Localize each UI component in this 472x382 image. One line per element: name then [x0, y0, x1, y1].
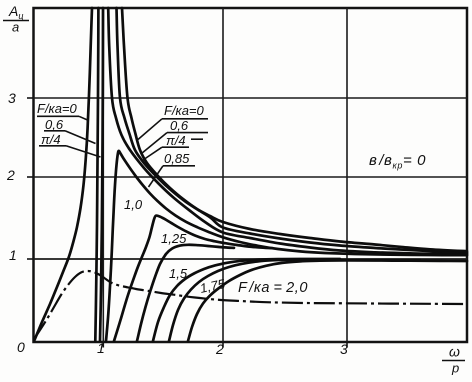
- svg-text:Aц: Aц: [8, 3, 24, 21]
- curve F/ka=0 left branch: [35, 8, 93, 340]
- right label 0,85 underline: [163, 165, 195, 167]
- svg-text:2: 2: [6, 167, 15, 183]
- gridline y=1: [34, 258, 468, 260]
- svg-text:0,6: 0,6: [170, 118, 189, 133]
- curve F/ka=0.6 left branch: [95, 8, 98, 341]
- small dash right of pi/4: [191, 138, 203, 140]
- gridline x=3: [346, 8, 348, 342]
- svg-text:F/кa=0: F/кa=0: [37, 101, 78, 116]
- right label 0,85 leader: [149, 166, 164, 187]
- svg-text:p: p: [451, 361, 459, 376]
- left label pi/4 leader: [66, 146, 101, 157]
- right label pi/4 leader: [143, 147, 162, 160]
- curve F/ka=pi/4 right branch: [108, 8, 467, 254]
- curve F/ka=0.85: [106, 151, 467, 341]
- curve F/ka=1.0: [114, 216, 273, 341]
- tick x=1: [102, 342, 104, 348]
- left label F/ka=0 leader: [79, 116, 88, 120]
- svg-text:0,6: 0,6: [45, 117, 64, 132]
- dash-dot limit line: [34, 271, 467, 339]
- gridline y=2: [34, 176, 468, 178]
- tick y=3: [27, 97, 34, 99]
- svg-text:1,5: 1,5: [169, 266, 188, 281]
- tick y=1: [27, 258, 34, 260]
- svg-text:1,0: 1,0: [124, 197, 143, 212]
- tick x=2: [222, 342, 224, 348]
- curve F/ka=0 right branch: [122, 8, 467, 251]
- svg-text:π/4: π/4: [166, 133, 186, 148]
- left label 0,6 underline: [44, 130, 65, 132]
- svg-text:1: 1: [9, 247, 17, 263]
- right label pi/4 underline: [162, 146, 189, 148]
- right label 0,6 underline: [167, 132, 208, 134]
- svg-text:F /кa = 2,0: F /кa = 2,0: [238, 280, 308, 296]
- curve F/ka=pi/4 left branch: [100, 8, 103, 341]
- curve F/ka=1.75: [169, 260, 420, 341]
- svg-text:2: 2: [215, 341, 224, 357]
- svg-text:3: 3: [8, 90, 16, 106]
- left label 0,6 leader: [65, 131, 96, 144]
- svg-text:3: 3: [340, 341, 348, 357]
- right label F/ka=0 underline: [162, 118, 208, 120]
- right label F/ka=0 leader: [138, 119, 162, 140]
- svg-text:a: a: [12, 20, 19, 35]
- svg-text:ω: ω: [449, 344, 460, 360]
- left label pi/4 underline: [39, 145, 66, 147]
- svg-text:1,25: 1,25: [161, 231, 187, 246]
- gridline x=2: [222, 8, 224, 342]
- tick x=3: [346, 342, 348, 348]
- gridline y=3: [34, 97, 468, 99]
- svg-text:0,85: 0,85: [164, 151, 190, 166]
- curve F/ka=1.5: [153, 259, 340, 341]
- svg-text:F/кa=0: F/кa=0: [164, 103, 205, 118]
- curve F/ka=2.0: [188, 260, 467, 341]
- curve F/ka=0.6 right branch: [117, 8, 468, 253]
- svg-text:0: 0: [17, 339, 25, 355]
- svg-text:π/4: π/4: [41, 132, 61, 147]
- tick y=2: [27, 176, 34, 178]
- left label F/ka=0 underline: [37, 115, 79, 117]
- curve F/ka=1.25: [137, 245, 234, 341]
- right label 0,6 leader: [142, 133, 168, 154]
- svg-text:1: 1: [97, 340, 105, 356]
- gridline x=1: [102, 8, 104, 342]
- svg-text:в /вкр= 0: в /вкр= 0: [369, 152, 426, 171]
